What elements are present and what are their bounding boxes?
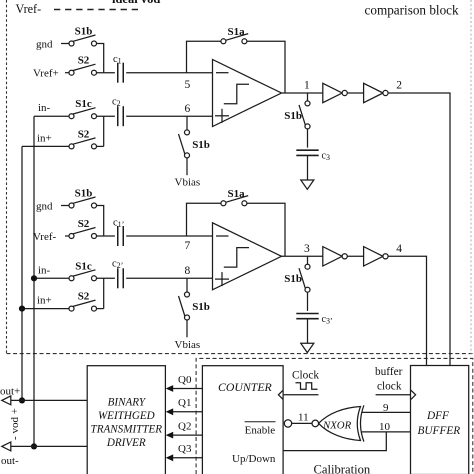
svg-text:ideal vod: ideal vod <box>112 0 160 6</box>
wire S1b to junction (ch1) <box>97 44 104 73</box>
svg-text:Q3: Q3 <box>178 443 192 455</box>
capacitor c3&#8217; (ch2) <box>296 314 332 326</box>
wire in- to switch (ch1) <box>34 115 69 117</box>
svg-text:S1a: S1a <box>228 188 246 200</box>
svg-text:Vref-: Vref- <box>33 231 56 243</box>
wire out+ line <box>11 399 87 401</box>
port out- arrow <box>2 442 11 451</box>
wire S1b to Vbias (ch2) <box>186 320 188 337</box>
comparison block dashed border left <box>6 0 8 354</box>
svg-text:9: 9 <box>383 402 389 414</box>
wire Vref to switch (ch1) <box>65 72 69 74</box>
svg-text:5: 5 <box>185 79 191 91</box>
switch S1b gnd (ch2) <box>69 188 97 209</box>
wire S2 in+ to junction (ch1) <box>97 145 104 147</box>
svg-text:in+: in+ <box>37 132 52 144</box>
wire Vref- dashed <box>54 9 143 11</box>
svg-text:Enable: Enable <box>245 424 276 436</box>
svg-text:DFF: DFF <box>426 410 449 422</box>
wire node 8 to S1b vbias (ch2) <box>186 278 188 292</box>
svg-text:Clock: Clock <box>292 369 319 381</box>
wire enable to nxor <box>292 422 312 424</box>
svg-text:BUFFER: BUFFER <box>418 425 461 437</box>
switch S2 Vref (ch2) <box>69 218 97 239</box>
wire C1&#8217; to comparator (ch2) <box>126 235 212 237</box>
svg-text:comparison block: comparison block <box>365 3 460 18</box>
wire C1 to comparator (ch1) <box>126 72 212 74</box>
wire S1c to cap C2&#8217; (ch2) <box>97 277 115 279</box>
wire S1a feedback right (ch2) <box>247 203 285 256</box>
inverter A (ch2) <box>323 247 348 266</box>
switch S2 in+ (ch2) <box>69 291 97 312</box>
svg-text:c3’: c3’ <box>322 314 333 326</box>
svg-text:gnd: gnd <box>36 39 53 51</box>
svg-text:Calibration: Calibration <box>314 463 371 474</box>
wire gnd to switch (ch2) <box>61 205 69 207</box>
wire gnd to switch (ch1) <box>61 43 69 45</box>
wire junction row C to row D (ch2) <box>103 278 105 308</box>
wire S1c to cap C2 (ch1) <box>97 115 115 117</box>
svg-text:gnd: gnd <box>36 201 53 213</box>
wire S2 to cap C1 (ch1) <box>97 72 115 74</box>
inverter A (ch1) <box>323 83 348 102</box>
comparator U1 <box>213 60 282 127</box>
svg-text:Up/Down: Up/Down <box>232 453 276 465</box>
wire junction row C to row D (ch1) <box>103 116 105 146</box>
svg-text:S2: S2 <box>78 218 90 230</box>
wire node 6 to S1b vbias (ch1) <box>186 116 188 130</box>
svg-text:Q2: Q2 <box>178 421 191 433</box>
bubble nxor output <box>312 420 319 427</box>
wire line 10 <box>362 431 411 433</box>
svg-text:c1: c1 <box>113 54 122 65</box>
wire C2&#8217; to comparator (ch2) <box>126 277 212 279</box>
ground (ch1) <box>301 180 314 189</box>
wire S1a feedback left (ch2) <box>187 203 221 236</box>
junction dot in+ out+ <box>19 397 25 403</box>
bubble enable input <box>284 420 291 427</box>
switch S1c (ch1) <box>69 98 97 119</box>
wire Q2 <box>172 434 202 436</box>
svg-text:7: 7 <box>185 240 191 252</box>
svg-text:c3: c3 <box>322 151 330 163</box>
inverter B (ch1) <box>364 83 389 102</box>
block dff buffer <box>411 366 469 474</box>
wire c3&#8217; to ground (ch2) <box>307 319 309 344</box>
capacitor C2&#8217; (ch2) <box>112 259 123 289</box>
switch S1b gnd (ch1) <box>69 26 97 47</box>
wire Q3 <box>172 457 202 459</box>
svg-text:S1b: S1b <box>284 273 302 285</box>
svg-text:8: 8 <box>185 265 191 277</box>
wire in- to switch (ch2) <box>34 277 69 279</box>
svg-text:S1b: S1b <box>75 26 93 38</box>
svg-text:DRIVER: DRIVER <box>106 437 146 449</box>
arrow buffer clock chevron <box>411 390 416 399</box>
svg-text:S1b: S1b <box>192 301 210 313</box>
comparison block dashed border bottom <box>7 353 473 355</box>
junction dot in+ ch2 <box>19 306 25 312</box>
wire Vref to switch (ch2) <box>65 235 69 237</box>
wire node 1 to S1b (ch1) <box>307 93 309 101</box>
svg-text:c1’: c1’ <box>113 218 124 230</box>
svg-text:S2: S2 <box>78 291 90 303</box>
capacitor C1 (ch1) <box>113 54 123 82</box>
svg-text:11: 11 <box>298 412 309 424</box>
svg-text:in-: in- <box>38 264 51 276</box>
block counter <box>202 366 283 474</box>
wire in+ rail <box>21 146 23 400</box>
wire line 9 <box>362 411 411 413</box>
port out+ arrow <box>2 396 11 405</box>
svg-text:10: 10 <box>379 421 391 433</box>
wire S1b to c3 (ch1) <box>307 129 309 148</box>
comparison block dotted border right (light) <box>470 0 472 354</box>
arrow Q3 <box>166 454 174 461</box>
wire between inverters (ch1) <box>348 92 364 94</box>
junction dot in- out- <box>31 443 37 449</box>
switch S1b vbias (ch1) <box>179 130 210 158</box>
svg-text:WEITHGED: WEITHGED <box>98 410 155 422</box>
svg-text:c2’: c2’ <box>112 259 123 271</box>
svg-text:c2: c2 <box>112 97 121 109</box>
wire S2 to cap C1&#8217; (ch2) <box>97 235 115 237</box>
svg-text:S1b: S1b <box>75 188 93 200</box>
gate NXOR <box>319 407 361 441</box>
wire in- rail <box>33 116 35 446</box>
wire clock line <box>284 394 319 396</box>
wire node 4 to DFF buffer <box>388 256 426 365</box>
wire S2 in+ to junction (ch2) <box>97 308 104 310</box>
svg-text:S2: S2 <box>78 55 90 67</box>
wire buffer clock <box>376 394 411 396</box>
wire S1a feedback left (ch1) <box>187 41 221 72</box>
switch S1a (ch1) <box>221 26 248 44</box>
arrow Q0 <box>166 385 174 392</box>
label ideal vod (cut off at top) <box>112 0 160 6</box>
comparator U2 <box>213 223 282 290</box>
switch S1c (ch2) <box>69 260 97 281</box>
wire S1b to Vbias (ch1) <box>186 158 188 175</box>
arrow clock input chevron <box>278 390 283 399</box>
svg-text:6: 6 <box>185 103 191 115</box>
svg-text:out+: out+ <box>0 385 20 397</box>
svg-text:3: 3 <box>304 243 310 255</box>
svg-text:S1c: S1c <box>75 98 92 110</box>
capacitor C2 (ch1) <box>112 97 123 127</box>
wire comparator output (ch1) <box>282 92 323 94</box>
wire up/down <box>283 432 386 451</box>
switch S1b vbias (ch2) <box>179 292 210 320</box>
wire node 2 to DFF buffer <box>388 93 450 366</box>
svg-text:in-: in- <box>38 102 51 114</box>
svg-text:TRANSMITTER: TRANSMITTER <box>91 424 163 436</box>
svg-text:Vref-: Vref- <box>16 2 42 16</box>
arrow Q1 <box>166 408 174 415</box>
svg-text:S1b: S1b <box>192 139 210 151</box>
switch S1a (ch2) <box>221 188 248 206</box>
capacitor C1&#8217; (ch2) <box>113 218 124 247</box>
svg-text:Q1: Q1 <box>178 397 191 409</box>
wire between inverters (ch2) <box>348 255 364 257</box>
svg-text:S1b: S1b <box>284 110 302 122</box>
switch S1b output (ch2) <box>284 264 310 292</box>
svg-text:- vod +: - vod + <box>9 408 21 440</box>
wire S1a feedback right (ch1) <box>247 41 285 93</box>
svg-text:S1c: S1c <box>75 260 92 272</box>
wire in+ to switch (ch2) <box>22 308 69 310</box>
svg-text:COUNTER: COUNTER <box>218 380 273 394</box>
switch S2 in+ (ch1) <box>69 128 97 149</box>
wire in+ to switch (ch1) <box>22 145 69 147</box>
wire comparator output (ch2) <box>282 255 323 257</box>
svg-text:2: 2 <box>396 80 402 92</box>
svg-text:1: 1 <box>304 80 310 92</box>
svg-text:Vbias: Vbias <box>175 177 201 189</box>
svg-text:in+: in+ <box>37 295 52 307</box>
svg-text:NXOR: NXOR <box>322 420 352 432</box>
svg-text:4: 4 <box>396 243 402 255</box>
arrow Q2 <box>166 432 174 439</box>
wire S1b to junction (ch2) <box>97 206 104 237</box>
wire Q0 <box>172 388 202 390</box>
wire out- line <box>11 445 87 447</box>
svg-text:Vref+: Vref+ <box>33 68 59 80</box>
svg-text:buffer: buffer <box>375 366 403 378</box>
svg-text:Q0: Q0 <box>178 374 192 386</box>
inverter B (ch2) <box>364 247 389 266</box>
icon clock waveform <box>296 383 318 389</box>
wire S1b to c3&#8217; (ch2) <box>307 292 309 311</box>
capacitor c3 (ch1) <box>296 150 330 162</box>
ground (ch2) <box>301 343 314 352</box>
svg-text:Vbias: Vbias <box>175 339 201 351</box>
junction dot in- ch2 <box>31 275 37 281</box>
wire c3 to ground (ch1) <box>307 155 309 180</box>
svg-text:out-: out- <box>1 455 19 467</box>
block binary weighted transmitter driver <box>87 366 165 474</box>
svg-text:S1a: S1a <box>228 26 246 38</box>
svg-text:S2: S2 <box>78 128 90 140</box>
wire node 3 to S1b (ch2) <box>307 256 309 264</box>
wire Q1 <box>172 411 202 413</box>
svg-text:clock: clock <box>377 381 402 393</box>
switch S1b output (ch1) <box>284 101 310 129</box>
wire C2 to comparator (ch1) <box>126 115 212 117</box>
svg-text:BINARY: BINARY <box>108 396 147 408</box>
switch S2 Vref (ch1) <box>69 55 97 75</box>
calibration block dashed border <box>196 358 473 474</box>
